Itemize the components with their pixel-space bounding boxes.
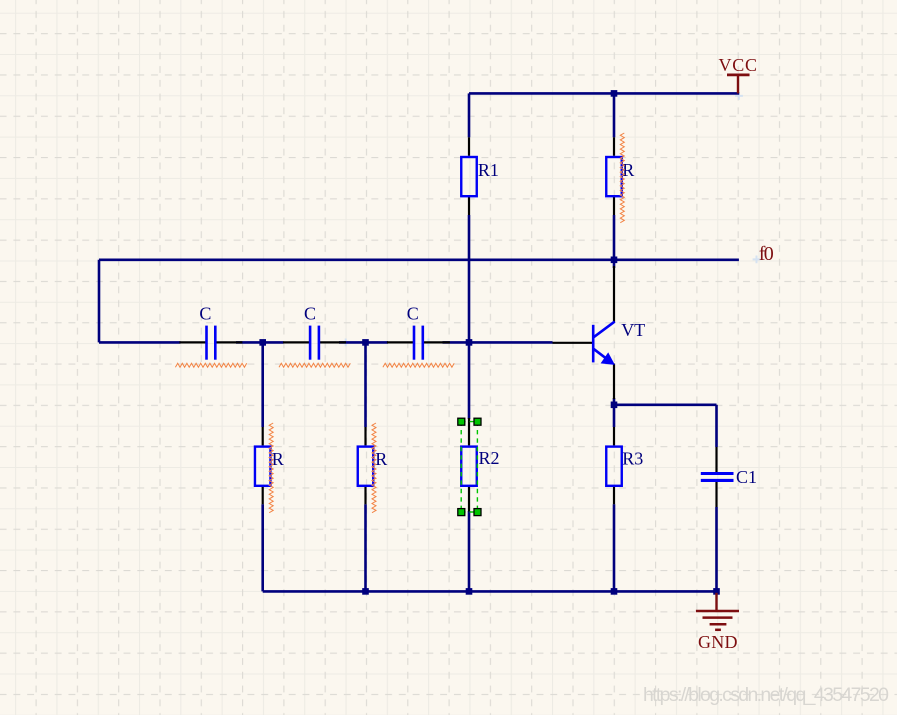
error squiggle under C #3 [383,363,454,367]
wire: segment C to junction A [236,341,284,344]
pin: R pin 1 [364,427,366,445]
wire: junction C down to R2 [468,342,471,419]
pin: right of C #1 [215,341,242,343]
wire: top rail down to R1 [468,93,471,137]
junction: ground rail / R3 [611,588,618,595]
svg-text:VCC: VCC [719,55,758,75]
wire: C1 bottom down [715,507,718,591]
wire: f0 net horizontal [99,258,739,261]
wire: segment to junction B [339,341,388,344]
svg-text:https://blog.csdn.net/qq_43547: https://blog.csdn.net/qq_43547520 [643,684,889,706]
wire: top rail down to R [613,93,616,137]
transistor VT (NPN) [553,266,646,399]
svg-text:f0: f0 [759,243,774,265]
pin: R pin 1 [262,427,264,445]
wire: junction A down to R [261,342,264,427]
svg-text:GND: GND [698,632,738,652]
wire: C chain left segment [99,341,181,344]
wire: bottom ground rail [263,590,717,593]
pin: R1 pin 1 [468,137,470,156]
wire: junction C to VT base pin [443,341,553,344]
svg-text:C: C [199,304,211,324]
resistor R3 [606,427,643,504]
pin: R pin 2 [262,486,264,504]
wire: R2 bottom to ground rail [468,511,471,591]
svg-text:R3: R3 [622,448,643,468]
wire: R3 bottom to ground rail [613,504,616,591]
pin: C1 bottom [715,480,717,507]
junction C: C chain / R1 / R2 [466,339,473,346]
svg-text:R1: R1 [478,160,499,180]
wire: VT emitter to junction E [613,398,616,405]
VT collector stroke [594,322,615,338]
junction: ground rail / R2 [466,588,473,595]
pin: R1 pin 2 [468,197,470,216]
connection marker (decorative faint cross) [342,92,761,346]
capacitor C #3 [387,304,450,360]
wire: R1 bottom to C chain [468,215,471,342]
wire: left vertical (f0 to C chain) [98,260,101,343]
svg-text:R2: R2 [479,448,500,468]
plates of C1 [701,472,734,475]
junction: top rail / R [611,90,618,97]
pin: VT emitter [613,364,615,400]
plates of C #1 [205,326,208,360]
resistor R (bottom middle) [358,427,387,504]
wire: R bottom to ground rail [364,504,367,591]
capacitor C #1 [179,304,242,360]
pin: R2 pin 1 [468,418,470,445]
capacitor C1 [701,447,757,507]
pin: VT base [553,342,593,344]
wire: down to C1 [715,405,718,447]
selection dashes of R2 [461,422,477,512]
pin: right of C #3 [423,341,450,343]
wire: top rail (R1 top to VCC) [469,92,739,95]
pin: R pin 2 [364,486,366,504]
junction A: C chain / R [259,339,266,346]
error squiggle on R (top) [620,133,624,223]
error squiggle on R (bottom left) [269,423,273,513]
wire: junction B down to R [364,342,367,427]
pin: right of C #2 [319,341,346,343]
pin: left of C #3 [387,341,414,343]
junction: ground rail / R [362,588,369,595]
resistor R1 [461,137,499,215]
wire: junction E down to R3 [613,405,616,427]
error squiggle under C #2 [279,363,350,367]
plates of C #3 [413,326,416,360]
svg-text:C: C [407,304,419,324]
VT emitter stroke with arrow [594,349,607,359]
svg-text:VT: VT [621,320,645,340]
resistor R2 (selected) [461,418,499,512]
resistor R (bottom left) [255,427,284,504]
power port VCC [719,55,758,93]
wire: junction E to C1 top [614,403,717,406]
pin: C1 top [715,447,717,474]
capacitor C #2 [283,304,346,360]
pin: VT collector [613,266,615,322]
wire: f0 junction to VT collector [613,260,616,268]
pin: left of C #1 [179,341,206,343]
junction B: C chain / R [362,339,369,346]
svg-text:R: R [272,449,284,469]
junction: ground rail / GND [713,588,720,595]
pin: R pin 1 [613,137,615,156]
wire: R bottom to ground rail [261,504,264,591]
power port GND [696,593,739,652]
pin: R3 pin 1 [613,427,615,445]
pin: left of C #2 [283,341,310,343]
svg-text:C1: C1 [736,467,757,487]
wire: R bottom to f0 junction [613,215,616,260]
error squiggle on R (bottom middle) [372,423,376,513]
pin: R2 pin 2 [468,486,470,511]
pin: R pin 2 [613,197,615,216]
error squiggle under C #1 [175,363,246,367]
VT base bar [592,325,595,363]
svg-text:R: R [375,449,387,469]
junction: f0 / collector [611,257,618,264]
pin: R3 pin 2 [613,486,615,504]
svg-text:C: C [304,304,316,324]
junction E: emitter / R3 / C1 [611,402,618,409]
resistor R (top right) [606,137,634,215]
plates of C #2 [309,326,312,360]
selection handles of R2 [458,418,481,515]
